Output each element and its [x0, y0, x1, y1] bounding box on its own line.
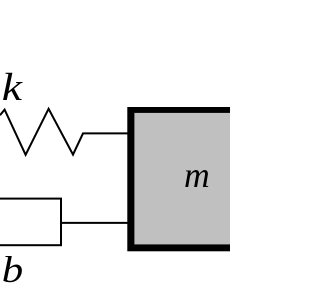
- label k: [2, 66, 23, 109]
- label b: [2, 249, 23, 290]
- spring k (zigzag): [0, 109, 128, 155]
- svg-text:b: b: [2, 249, 23, 290]
- svg-text:m: m: [184, 155, 210, 195]
- damper b (rectangle): [0, 199, 61, 246]
- svg-text:k: k: [2, 66, 23, 109]
- label m: [184, 155, 210, 195]
- mass m (box): [127, 107, 237, 251]
- wire damper to mass: [61, 222, 128, 224]
